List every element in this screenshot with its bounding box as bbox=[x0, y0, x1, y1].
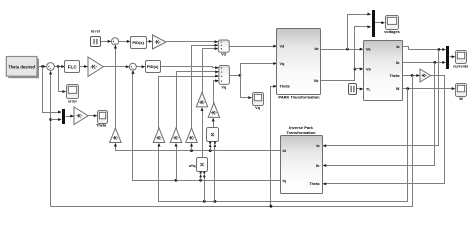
wire sum to FLC bbox=[55, 66, 65, 68]
mux voltages bbox=[372, 10, 375, 37]
svg-text:Vb: Vb bbox=[314, 79, 320, 83]
wire PID2 to Vq sum bbox=[161, 67, 219, 68]
product P2 w x iq bbox=[197, 158, 208, 172]
sum S2 current q bbox=[129, 63, 136, 70]
svg-text:FLC: FLC bbox=[68, 64, 78, 69]
wire gain A out to Vd sum bbox=[203, 49, 218, 93]
gain T4 id bbox=[186, 128, 198, 143]
wire T3 out to Vq sum bbox=[177, 72, 219, 129]
wire Theta desired branch to mux1 bbox=[43, 67, 61, 113]
svg-text:Theta: Theta bbox=[280, 85, 291, 89]
wire Ib feedback to inverse park bbox=[324, 63, 435, 166]
svg-text:Vd: Vd bbox=[221, 53, 227, 57]
wire W to product P2 bbox=[204, 177, 206, 202]
wire rad gain to inverse park theta bbox=[324, 76, 445, 184]
scope error bbox=[67, 85, 79, 99]
block Inverse Park Transformation bbox=[281, 136, 323, 194]
svg-text:Vq: Vq bbox=[221, 86, 227, 90]
wire gain B out to Vq sum bbox=[214, 81, 219, 104]
wire Vq sum out bbox=[230, 75, 241, 77]
wire Vb branch into motor bbox=[355, 68, 363, 70]
wire Va branch to voltages mux bbox=[348, 15, 371, 50]
junction theta to mux1 bbox=[49, 118, 52, 121]
junction error branch bbox=[57, 65, 60, 68]
junction Va branch bbox=[346, 48, 349, 51]
junction Id to P1 bbox=[209, 149, 212, 152]
mux theta compare bbox=[62, 109, 65, 124]
wire row1 Idref to sum bbox=[101, 41, 111, 43]
svg-text:W: W bbox=[459, 97, 463, 101]
gain K1 row1 bbox=[153, 35, 167, 49]
wire theta up to PARK Theta bbox=[271, 87, 277, 207]
scope currents bbox=[456, 51, 467, 64]
wire row1 sum to PID1 bbox=[119, 41, 130, 43]
scope Vq bbox=[253, 93, 264, 106]
wire voltages mux to scope bbox=[375, 22, 385, 24]
block Theta desired bbox=[8, 59, 39, 79]
wire theta feedback up to sum1 bbox=[50, 72, 52, 207]
wire FLC to gain bbox=[80, 66, 88, 68]
svg-text:PARK Transformation: PARK Transformation bbox=[278, 95, 320, 100]
gain T1 id bbox=[110, 128, 122, 143]
junction W down bbox=[406, 87, 409, 90]
wire error branch to error scope bbox=[59, 67, 66, 92]
junction Iq to T3 bbox=[175, 179, 178, 182]
wire Id feedback from inverse park bbox=[116, 146, 281, 151]
junction Ib feedback bbox=[433, 61, 436, 64]
junction theta down bbox=[411, 74, 414, 77]
svg-text:currents: currents bbox=[453, 64, 468, 68]
svg-text:Vq: Vq bbox=[255, 106, 261, 110]
junction W to product P1 bbox=[214, 200, 217, 203]
wire Vq down to Vq scope bbox=[241, 76, 252, 98]
wire mux1 to gain theta bbox=[66, 116, 74, 118]
wire theta branch to mux1 bbox=[51, 119, 61, 121]
wire row1 gain1 to Vd sum bbox=[167, 41, 218, 43]
sum block Vd bbox=[218, 40, 229, 52]
svg-text:Theta: Theta bbox=[309, 182, 320, 186]
scope W bbox=[456, 84, 467, 97]
svg-text:Theta: Theta bbox=[389, 74, 400, 78]
gain T2 w bbox=[153, 128, 165, 143]
wire currents mux to scope bbox=[450, 56, 455, 58]
wire theta bottom bus bbox=[51, 76, 413, 207]
junction Theta desired branch bbox=[41, 65, 44, 68]
svg-text:Vb: Vb bbox=[366, 67, 372, 71]
wire Iq feedback from inverse park bbox=[133, 72, 281, 181]
svg-text:PID(s): PID(s) bbox=[147, 64, 159, 69]
junction Ia feedback bbox=[438, 48, 441, 51]
wire motor Theta to gain bbox=[403, 75, 420, 77]
wire motor Ib to currents mux bbox=[403, 62, 446, 64]
wire gain to sum2 bbox=[104, 66, 129, 68]
wire TL to motor bbox=[357, 88, 363, 90]
gain K theta bbox=[88, 57, 103, 77]
sum S1 theta error bbox=[47, 63, 55, 71]
block PID2 bbox=[146, 61, 161, 73]
wire T2 out to Vq sum bbox=[159, 77, 219, 129]
svg-text:PID(s): PID(s) bbox=[132, 40, 144, 45]
wire Iq to T3 bbox=[176, 146, 178, 181]
wire motor W to scope bbox=[403, 88, 455, 90]
block TL constant bbox=[349, 84, 357, 95]
junction Vb to motor bbox=[354, 68, 357, 71]
wire row1 PID1 to gain1 bbox=[147, 41, 152, 43]
svg-text:TL: TL bbox=[366, 87, 371, 91]
gain rad2deg bbox=[420, 69, 431, 82]
gain A wiq bbox=[196, 92, 208, 107]
svg-text:Theta desired: Theta desired bbox=[8, 64, 35, 69]
block FLC bbox=[65, 61, 80, 73]
wire Theta desired to sum bbox=[37, 66, 46, 68]
svg-text:Vd: Vd bbox=[280, 44, 286, 48]
gain T3 iq bbox=[170, 128, 182, 143]
svg-text:voltages: voltages bbox=[384, 30, 399, 34]
product P1 w x id bbox=[207, 128, 219, 142]
junction Iq to P2 bbox=[199, 179, 202, 182]
wire P2 out to gain A bbox=[202, 111, 204, 158]
junction Vq out bbox=[239, 74, 242, 77]
gain B wid bbox=[208, 103, 220, 118]
svg-text:Vq: Vq bbox=[280, 62, 286, 66]
wire T1 out to sum1b bbox=[115, 46, 117, 129]
wire W to product P1 bbox=[214, 147, 216, 202]
wire Id to T4 bbox=[191, 146, 193, 151]
svg-text:Id ref: Id ref bbox=[91, 30, 101, 34]
wire Ia feedback to inverse park bbox=[324, 50, 439, 146]
sum block Vq bbox=[219, 66, 230, 85]
svg-text:Transformation: Transformation bbox=[286, 130, 316, 135]
sum S1b current d bbox=[111, 38, 118, 45]
wire Vd sum to PARK Vd bbox=[230, 46, 277, 48]
wire W bus bbox=[159, 89, 408, 202]
block Id ref bbox=[91, 37, 101, 47]
scope voltages bbox=[386, 16, 399, 30]
wire motor Ia to currents mux bbox=[403, 47, 446, 50]
scope Theta bbox=[98, 111, 108, 124]
wire T4 out to Vd sum bbox=[192, 46, 218, 129]
block PARK Transformation bbox=[277, 29, 321, 95]
svg-text:W: W bbox=[396, 87, 400, 91]
wire Vq up to PARK Vq bbox=[241, 64, 277, 76]
wire PARK Va to motor bbox=[321, 49, 363, 51]
wire Id to product P1 bbox=[210, 147, 212, 151]
wire PARK Vb to motor and mux bbox=[321, 27, 371, 81]
wire Iq to product P2 bbox=[200, 177, 202, 181]
mux currents bbox=[446, 46, 449, 69]
svg-text:w*iq: w*iq bbox=[188, 164, 196, 168]
block PID1 bbox=[131, 37, 147, 49]
gain K theta display bbox=[74, 107, 88, 125]
block motor model bbox=[364, 41, 403, 101]
wire sum2 to PID2 bbox=[137, 66, 145, 68]
svg-text:error: error bbox=[68, 99, 77, 103]
wire gain theta to Theta scope bbox=[89, 115, 97, 117]
wire P1 out to gain B bbox=[213, 122, 215, 128]
junction W to product P2 bbox=[203, 200, 206, 203]
junction Id to T4 bbox=[190, 149, 193, 152]
junction theta to park column bbox=[270, 205, 273, 208]
svg-text:Theta: Theta bbox=[96, 124, 107, 128]
